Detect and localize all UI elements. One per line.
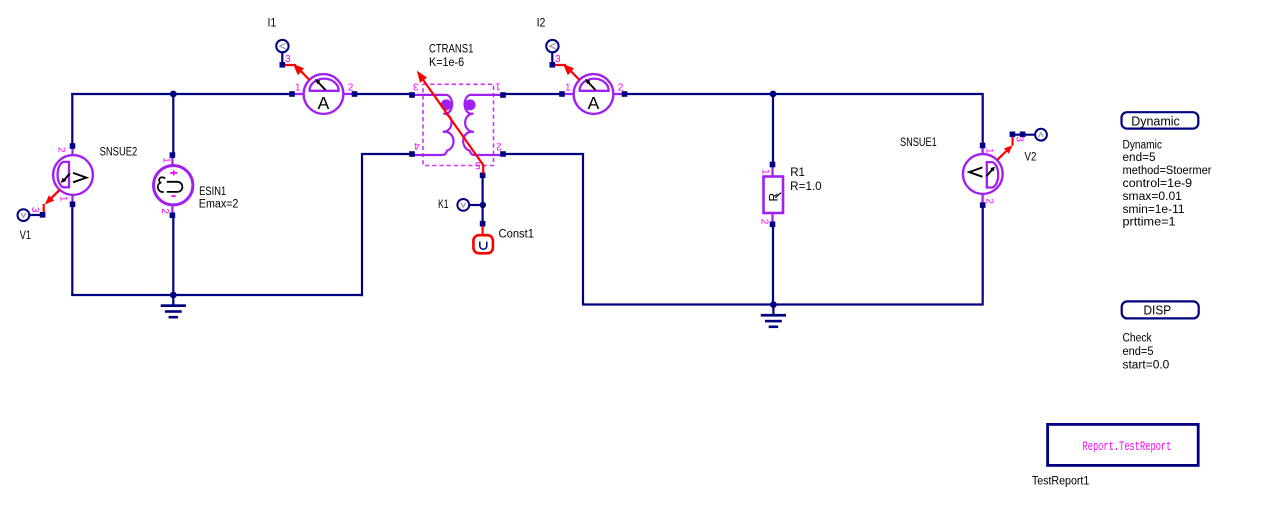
- wire I2 terminal stub: [551, 52, 553, 65]
- voltmeter SNSUE2 pin squares 2,1: [70, 143, 76, 207]
- svg-text:V2: V2: [1025, 151, 1037, 163]
- svg-text:R=1.0: R=1.0: [790, 181, 822, 193]
- ammeter I2 control arrow: [555, 64, 580, 80]
- svg-text:K1: K1: [438, 199, 449, 211]
- svg-text:SNSUE1: SNSUE1: [900, 137, 937, 149]
- ammeter I1 pin labels: [295, 82, 354, 93]
- svg-text:CTRANS1: CTRANS1: [429, 44, 473, 56]
- svg-text:I1: I1: [268, 17, 277, 29]
- svg-text:2: 2: [56, 147, 67, 153]
- source ESIN1: [154, 157, 193, 213]
- wire K1 horizontal: [469, 204, 483, 206]
- wire right riser lower: [982, 206, 984, 306]
- voltmeter SNSUE2 control arrow: [44, 190, 60, 213]
- transformer CTRANS1 control arrow: [417, 71, 483, 174]
- node junction bottom-left ground: [170, 292, 177, 299]
- wire left vertical lower: [71, 205, 73, 297]
- svg-text:Dynamic: Dynamic: [1131, 114, 1180, 128]
- svg-text:3: 3: [1014, 136, 1025, 142]
- svg-text:1: 1: [161, 157, 172, 163]
- label K1: [438, 199, 449, 211]
- svg-text:V1: V1: [20, 230, 32, 242]
- svg-text:3: 3: [29, 207, 40, 213]
- voltmeter SNSUE1: [963, 148, 1003, 204]
- transformer CTRANS1 secondary winding: [463, 95, 502, 155]
- svg-text:method=Stoermer: method=Stoermer: [1123, 165, 1212, 177]
- ground right: [761, 305, 786, 329]
- svg-text:TestReport1: TestReport1: [1032, 475, 1089, 487]
- simulation block Dynamic button: [1122, 112, 1199, 128]
- svg-text:A: A: [588, 93, 600, 113]
- wire ESIN1 branch lower: [172, 216, 174, 297]
- svg-text:4: 4: [414, 140, 420, 151]
- svg-text:3: 3: [555, 54, 561, 65]
- svg-text:end=5: end=5: [1123, 346, 1154, 358]
- wire right riser upper: [982, 93, 984, 146]
- svg-text:3: 3: [285, 54, 291, 65]
- label ESIN1 value: [199, 186, 239, 211]
- node junction top-left: [170, 91, 177, 98]
- svg-text:1: 1: [759, 169, 770, 175]
- resistor R1 pin labels: [759, 169, 771, 225]
- svg-text:2: 2: [496, 140, 502, 151]
- voltmeter SNSUE2: [53, 148, 93, 202]
- svg-text:2: 2: [759, 219, 770, 225]
- label V1: [20, 230, 32, 242]
- svg-text:ESIN1: ESIN1: [199, 186, 226, 198]
- svg-text:smin=1e-11: smin=1e-11: [1123, 204, 1185, 216]
- ammeter I1 control arrow: [285, 64, 310, 80]
- wire I1 right to transformer pin 3: [355, 93, 412, 95]
- transformer CTRANS1 dashed box: [423, 84, 494, 165]
- svg-text:A: A: [318, 93, 330, 113]
- ammeter I1 pin squares 1,2: [289, 91, 357, 97]
- wire transformer pin 2 to bottom-right run: [503, 154, 983, 305]
- ammeter I2 pin squares 1,2: [559, 91, 627, 97]
- svg-text:1: 1: [495, 80, 501, 91]
- svg-text:Report.TestReport: Report.TestReport: [1083, 440, 1172, 454]
- svg-text:1: 1: [984, 148, 995, 154]
- svg-text:start=0.0: start=0.0: [1123, 360, 1170, 372]
- wire I2 right to right riser: [625, 93, 983, 95]
- wire left riser to transformer pin 4: [362, 154, 412, 296]
- ammeter I2 pin labels: [565, 82, 624, 93]
- wire bottom-left horizontal: [71, 294, 363, 296]
- transformer CTRANS1 primary winding: [414, 95, 454, 155]
- svg-text:SNSUE2: SNSUE2: [100, 146, 138, 158]
- transformer CTRANS1 secondary dot: [465, 99, 476, 110]
- svg-text:1: 1: [565, 82, 571, 93]
- svg-text:Emax=2: Emax=2: [199, 199, 239, 211]
- label SNSUE2: [100, 146, 138, 158]
- svg-text:2: 2: [159, 208, 170, 214]
- ammeter I1: [294, 74, 353, 114]
- wire left vertical upper: [71, 93, 73, 146]
- wire V1 horizontal: [30, 214, 43, 216]
- transformer CTRANS1 pin squares: [409, 92, 506, 178]
- label TestReport1: [1032, 475, 1089, 487]
- terminal V1 node 3: [18, 207, 46, 221]
- voltmeter SNSUE2 pin labels: [56, 147, 69, 202]
- svg-text:end=5: end=5: [1123, 152, 1156, 164]
- terminal V2 node 3: [1010, 129, 1047, 143]
- wire I1 terminal stub: [281, 52, 283, 65]
- report block Report.TestReport: [1048, 424, 1199, 465]
- transformer CTRANS1 primary dot: [441, 99, 452, 110]
- simulation block Dynamic parameters: [1123, 139, 1212, 228]
- svg-text:K=1e-6: K=1e-6: [429, 57, 464, 69]
- svg-text:R1: R1: [790, 167, 805, 179]
- svg-text:1: 1: [295, 82, 301, 93]
- voltmeter SNSUE1 pin squares 1,2: [980, 143, 986, 208]
- svg-text:Dynamic: Dynamic: [1123, 139, 1163, 151]
- terminal I1 node 3: [276, 40, 291, 68]
- voltmeter SNSUE1 pin labels: [984, 148, 995, 204]
- transformer CTRANS1 pin labels: [413, 80, 502, 169]
- svg-text:smax=0.01: smax=0.01: [1123, 191, 1182, 203]
- ammeter I2: [564, 74, 623, 114]
- node junction top-right: [770, 91, 777, 98]
- label Const1: [499, 229, 535, 241]
- wire transformer pin 1 to I2 left: [503, 93, 562, 95]
- svg-text:1: 1: [58, 196, 69, 202]
- wire transformer pin 5 down to Const1: [482, 176, 484, 224]
- svg-text:3: 3: [413, 80, 419, 91]
- node junction K1: [480, 202, 486, 208]
- label V2: [1025, 151, 1037, 163]
- svg-text:Const1: Const1: [499, 229, 535, 241]
- resistor R1: [764, 162, 784, 227]
- terminal K1: [457, 199, 469, 211]
- terminal I2 node 3: [546, 40, 561, 68]
- source ESIN1 pin labels: [159, 157, 172, 214]
- voltmeter SNSUE1 control arrow: [998, 136, 1013, 160]
- label SNSUE1: [900, 137, 937, 149]
- display block DISP button: [1122, 301, 1199, 318]
- wire V2 horizontal: [1013, 134, 1035, 136]
- label R1 value: [790, 167, 822, 193]
- svg-text:DISP: DISP: [1144, 304, 1172, 318]
- svg-text:prttime=1: prttime=1: [1123, 217, 1176, 229]
- ground left: [161, 295, 186, 319]
- svg-text:Check: Check: [1123, 333, 1152, 345]
- wire ESIN1 branch upper: [172, 93, 174, 155]
- svg-text:I2: I2: [537, 17, 546, 29]
- node junction bottom-right ground: [770, 301, 777, 308]
- wire R1 branch lower: [772, 225, 774, 305]
- label CTRANS1 value: [429, 44, 473, 69]
- source ESIN1 pin squares 1,2: [170, 152, 176, 218]
- label I2: [537, 17, 546, 29]
- display block DISP parameters: [1123, 333, 1170, 372]
- constant block Const1: [473, 221, 493, 253]
- wire R1 branch upper: [772, 93, 774, 165]
- wire top-left horizontal: [71, 93, 292, 95]
- svg-text:control=1e-9: control=1e-9: [1123, 178, 1193, 190]
- label I1: [268, 17, 277, 29]
- svg-text:R: R: [766, 193, 780, 202]
